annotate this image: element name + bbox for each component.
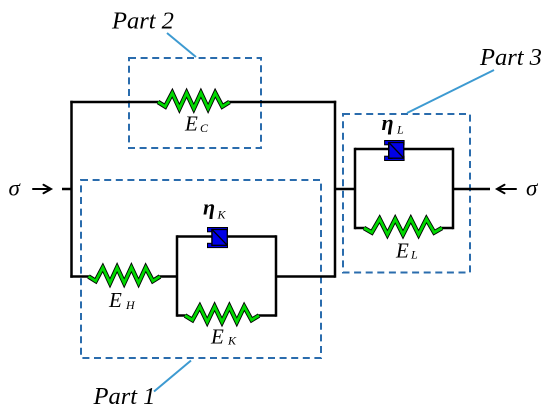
stress arrow left bbox=[33, 185, 51, 193]
label E_H bbox=[108, 288, 136, 312]
wire L-unit bottom right stub bbox=[441, 227, 453, 230]
svg-text:η: η bbox=[382, 110, 394, 135]
stress arrow right bbox=[497, 185, 516, 193]
dashpot eta_K bbox=[208, 228, 228, 248]
spring E_K bbox=[185, 307, 259, 323]
wire left vertical bbox=[70, 101, 73, 278]
svg-text:L: L bbox=[396, 123, 404, 137]
svg-text:η: η bbox=[203, 195, 215, 220]
spring E_C bbox=[158, 93, 230, 109]
wire L-unit entry stub bbox=[335, 188, 356, 191]
wire bottom branch left bbox=[70, 275, 90, 278]
svg-text:L: L bbox=[410, 248, 418, 262]
label E_C bbox=[184, 112, 209, 136]
spring E_L bbox=[364, 219, 442, 235]
wire L-unit top bbox=[355, 148, 453, 151]
wire K-unit right vertical bbox=[275, 235, 278, 316]
wire right vertical bbox=[334, 101, 337, 278]
wire K-unit bottom left stub bbox=[177, 314, 186, 317]
svg-text:H: H bbox=[125, 298, 136, 312]
callout line Part 1 bbox=[154, 361, 191, 392]
svg-text:E: E bbox=[184, 112, 198, 136]
svg-text:K: K bbox=[227, 334, 237, 348]
label E_L bbox=[395, 239, 418, 263]
label eta_L bbox=[382, 110, 405, 137]
svg-text:E: E bbox=[395, 239, 409, 263]
dashed box Part 1 bbox=[81, 180, 321, 358]
callout line Part 3 bbox=[407, 70, 494, 113]
svg-text:E: E bbox=[108, 288, 122, 312]
svg-text:Part 3: Part 3 bbox=[479, 44, 542, 71]
label E_K bbox=[210, 325, 237, 349]
wire L-unit left vertical bbox=[354, 148, 357, 229]
wire L-unit right vertical bbox=[452, 148, 455, 229]
wire K-unit top bbox=[177, 235, 276, 238]
wire L-unit bottom left stub bbox=[355, 227, 365, 230]
label eta_K bbox=[203, 195, 227, 222]
svg-text:σ: σ bbox=[526, 176, 539, 201]
wire bottom branch mid bbox=[159, 275, 178, 278]
svg-text:E: E bbox=[210, 325, 224, 349]
dashed box Part 3 bbox=[343, 114, 470, 273]
wire L-unit exit bbox=[453, 188, 490, 191]
spring E_H bbox=[89, 268, 161, 284]
svg-text:C: C bbox=[200, 121, 209, 135]
svg-text:Part 2: Part 2 bbox=[111, 8, 174, 35]
wire top branch right bbox=[229, 101, 336, 104]
wire bottom branch right bbox=[276, 275, 335, 278]
svg-text:Part 1: Part 1 bbox=[93, 383, 156, 410]
wire top branch left bbox=[70, 101, 158, 104]
dashpot eta_L bbox=[385, 141, 405, 161]
svg-text:σ: σ bbox=[9, 176, 22, 201]
wire K-unit left vertical bbox=[176, 235, 179, 316]
wire K-unit bottom right stub bbox=[258, 314, 276, 317]
callout line Part 2 bbox=[167, 33, 196, 57]
wire sigma stub left bbox=[62, 188, 72, 191]
svg-text:K: K bbox=[217, 208, 227, 222]
dashed box Part 2 bbox=[129, 58, 261, 148]
